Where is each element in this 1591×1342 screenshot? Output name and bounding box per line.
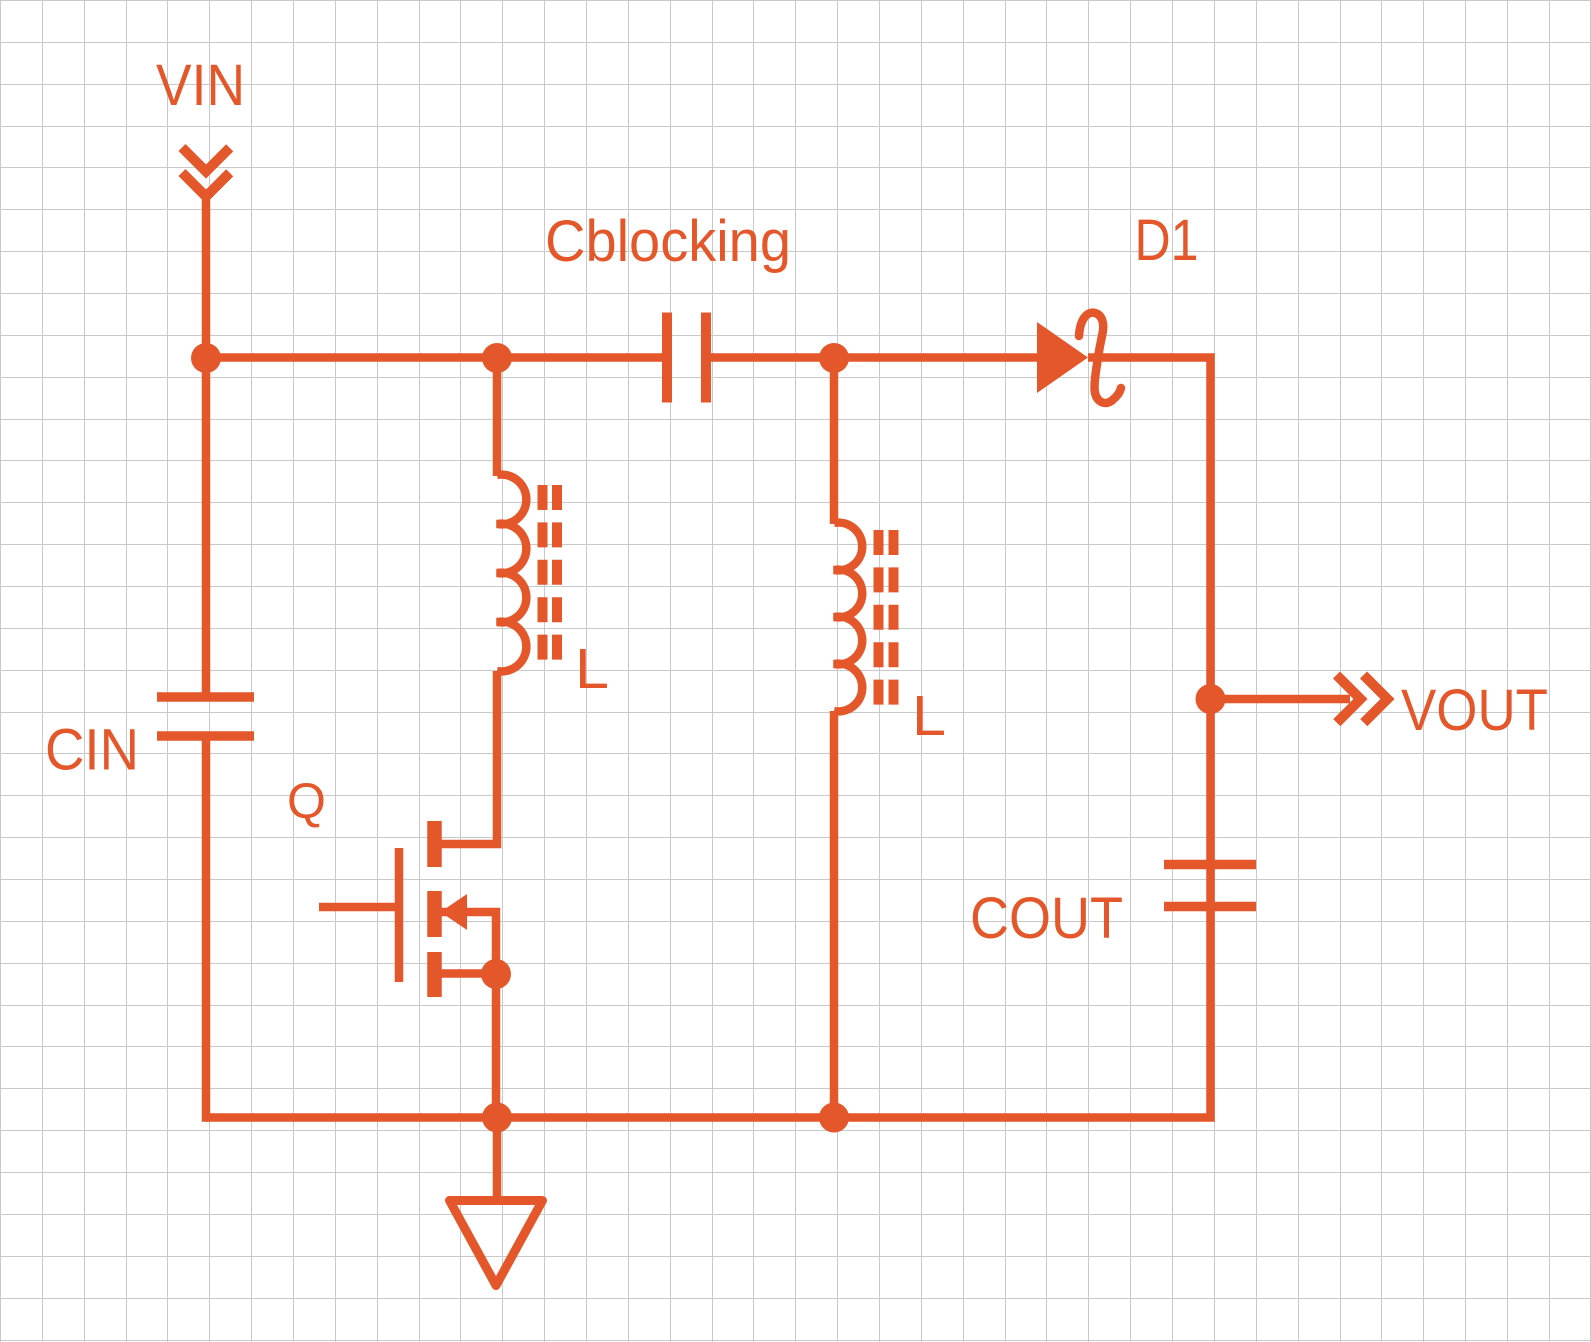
svg-text:Q: Q <box>287 773 326 829</box>
transistor Q gate lead <box>319 903 395 912</box>
port chevron VIN <box>182 148 230 197</box>
svg-text:VIN: VIN <box>156 53 245 118</box>
node junction bottom-right <box>819 1103 849 1133</box>
wire top rail right, right side, bottom rail <box>206 358 1211 1118</box>
svg-text:COUT: COUT <box>970 886 1123 951</box>
transistor Q gate bar <box>395 848 404 982</box>
inductor L2 wire bottom <box>830 711 839 1118</box>
transistor Q source line <box>434 969 496 978</box>
capacitor CIN <box>157 697 254 736</box>
wire top rail left <box>206 353 662 362</box>
node junction VOUT <box>1196 684 1226 714</box>
svg-text:CIN: CIN <box>45 718 139 783</box>
transistor Q body arrow head <box>441 894 468 930</box>
inductor L2 wire top <box>830 358 839 524</box>
wire source to bottom rail <box>492 974 501 1118</box>
diode D1 <box>1037 322 1088 393</box>
capacitor CIN wire bottom <box>202 736 211 1122</box>
transistor Q body arrow line <box>441 912 496 974</box>
capacitor CIN wire top <box>202 358 211 701</box>
node junction top-right <box>819 343 849 373</box>
port chevron VOUT <box>1337 675 1388 723</box>
svg-text:D1: D1 <box>1135 208 1199 273</box>
capacitor COUT plates <box>1164 865 1256 907</box>
capacitor Cblocking <box>667 313 706 403</box>
inductor L1 core dashes <box>543 485 558 661</box>
wire VOUT <box>1211 695 1351 704</box>
node junction top-left <box>191 343 221 373</box>
wire VIN stem <box>202 192 211 358</box>
inductor L1 <box>497 475 526 672</box>
inductor L1 wire bottom / drain wire <box>434 671 497 844</box>
inductor L2 <box>834 523 862 712</box>
ground stem <box>493 1118 502 1201</box>
diode D1 cathode curve <box>1079 313 1121 403</box>
node source junction <box>481 959 511 989</box>
svg-text:Cblocking: Cblocking <box>545 209 791 274</box>
inductor L1 wire top <box>493 358 502 476</box>
inductor L2 core dashes <box>879 530 894 706</box>
ground <box>450 1201 543 1286</box>
wire top rail mid <box>711 353 1040 362</box>
node junction top-mid <box>482 343 512 373</box>
node junction bottom-mid <box>482 1103 512 1133</box>
svg-text:L: L <box>575 637 609 701</box>
svg-text:VOUT: VOUT <box>1401 678 1548 743</box>
transistor Q channel bars <box>427 821 442 997</box>
svg-text:L: L <box>912 684 946 748</box>
